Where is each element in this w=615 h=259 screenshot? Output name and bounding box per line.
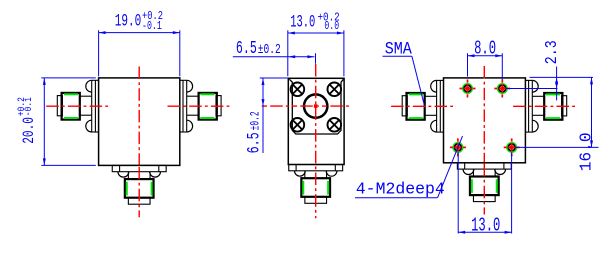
bottom SMA hex nut [301,178,330,197]
hex nut green flat bottom [409,117,423,119]
SMA flange ear bottom [431,120,437,132]
SMA flange plate [436,80,438,132]
bottom SMA end cap [128,198,150,205]
SMA flange plate [531,80,533,132]
bottom SMA flange ear right [326,171,337,176]
dimension 6.5 vertical [262,78,264,153]
svg-text:±0.2: ±0.2 [258,43,281,58]
cover screw [328,83,342,97]
vertical centerline [315,64,317,218]
connector axis centerline [168,105,233,107]
hex nut green flat bottom [64,117,78,119]
hex nut green flat left [471,179,473,193]
connector axis centerline [46,105,111,107]
bottom SMA flange strip [457,163,511,169]
cover screw [291,83,305,97]
hole centermark [494,88,510,90]
M2 tapped hole [463,84,473,94]
dimension 20.0 +0.2/-0.1 [43,78,45,165]
SMA end cap [57,96,62,116]
svg-text:2.3: 2.3 [543,40,562,64]
svg-text:6.5: 6.5 [244,132,264,153]
svg-text:-0.1: -0.1 [24,97,35,116]
SMA hex nut [544,93,562,120]
bottom SMA flange ear right [495,169,506,174]
M2 tapped hole [453,143,463,153]
front view body [99,78,180,165]
side view cover plate [289,79,343,134]
svg-text:6.5: 6.5 [236,38,257,59]
svg-text:13.0: 13.0 [290,13,315,32]
vertical centerline [483,164,485,215]
SMA hex nut [62,93,80,120]
dimension 6.5 horizontal [233,56,315,58]
bottom SMA flange ear left [118,172,129,177]
SMA flange ear top [86,80,92,92]
SMA barrel [80,95,92,97]
connector axis centerline [391,105,456,107]
bottom SMA flange ear left [463,169,474,174]
bottom SMA end cap [473,195,495,202]
svg-text:0.0: 0.0 [324,19,339,33]
hex nut green flat right [327,181,329,195]
bottom SMA flange strip [112,165,166,171]
svg-text:8.0: 8.0 [474,38,496,60]
hex nut green flat top [64,93,78,95]
dimension 19.0 +0.2/-0.1 [98,30,100,76]
bottom SMA flange strip [289,165,343,171]
hex nut green flat top [546,93,560,95]
bottom SMA hex nut [470,177,499,196]
side view body [288,78,344,164]
svg-text:-0.1: -0.1 [142,19,162,33]
SMA end cap [216,96,221,116]
hex nut green flat right [496,179,498,193]
SMA flange ear bottom [187,120,193,132]
hex nut green flat left [302,181,304,195]
hex nut green flat top [409,93,423,95]
hole centermark [460,88,476,90]
SMA barrel [425,95,437,97]
SMA flange plate [186,80,188,132]
dimension 8.0 [467,53,469,76]
svg-text:16.0: 16.0 [577,132,596,171]
svg-text:4-M2deep4: 4-M2deep4 [356,180,445,199]
M2 tapped hole [497,84,507,94]
connector axis centerline [513,105,578,107]
bottom SMA barrel [304,171,306,178]
SMA flange ear top [532,80,538,92]
dimension 13.0 (hole spacing) [457,152,459,233]
SMA flange ear bottom [532,120,538,132]
vertical centerline [138,67,140,168]
hex nut green flat top [200,93,214,95]
SMA barrel [532,95,544,97]
hole centermark [504,146,520,148]
hex nut green flat left [126,182,128,196]
hex nut green flat right [151,182,153,196]
SMA end cap [402,96,407,116]
svg-text:20.0: 20.0 [20,117,38,144]
bottom SMA flange ear right [150,172,161,177]
SMA end cap [562,96,567,116]
bottom SMA hex nut [125,179,154,198]
SMA flange ear bottom [86,120,92,132]
bottom SMA barrel [127,172,129,179]
dimension 2.3 [506,88,558,90]
hole centermark [450,146,466,148]
hex nut green flat bottom [200,117,214,119]
vertical centerline [138,167,140,217]
svg-text:13.0: 13.0 [471,214,500,236]
M2 tapped hole [507,143,517,153]
bottom SMA end cap [305,197,327,204]
SMA hex nut [199,93,217,120]
cover screw [328,118,342,132]
bottom SMA flange ear left [294,171,305,176]
horizontal centerline [262,105,350,107]
back view body [444,78,526,163]
vertical centerline [483,66,485,164]
SMA barrel [187,95,199,97]
SMA hex nut [407,93,425,120]
SMA connector face [304,94,327,117]
dimension 16.0 [516,146,599,148]
SMA flange plate [91,80,93,132]
svg-text:19.0: 19.0 [115,12,142,32]
SMA flange ear top [187,80,193,92]
svg-text:±0.2: ±0.2 [247,111,262,130]
cover screw [291,118,305,132]
bottom SMA barrel [472,169,474,176]
SMA flange ear top [431,80,437,92]
hex nut green flat bottom [546,117,560,119]
dimension 13.0 +0.2/0.0 [287,30,289,76]
